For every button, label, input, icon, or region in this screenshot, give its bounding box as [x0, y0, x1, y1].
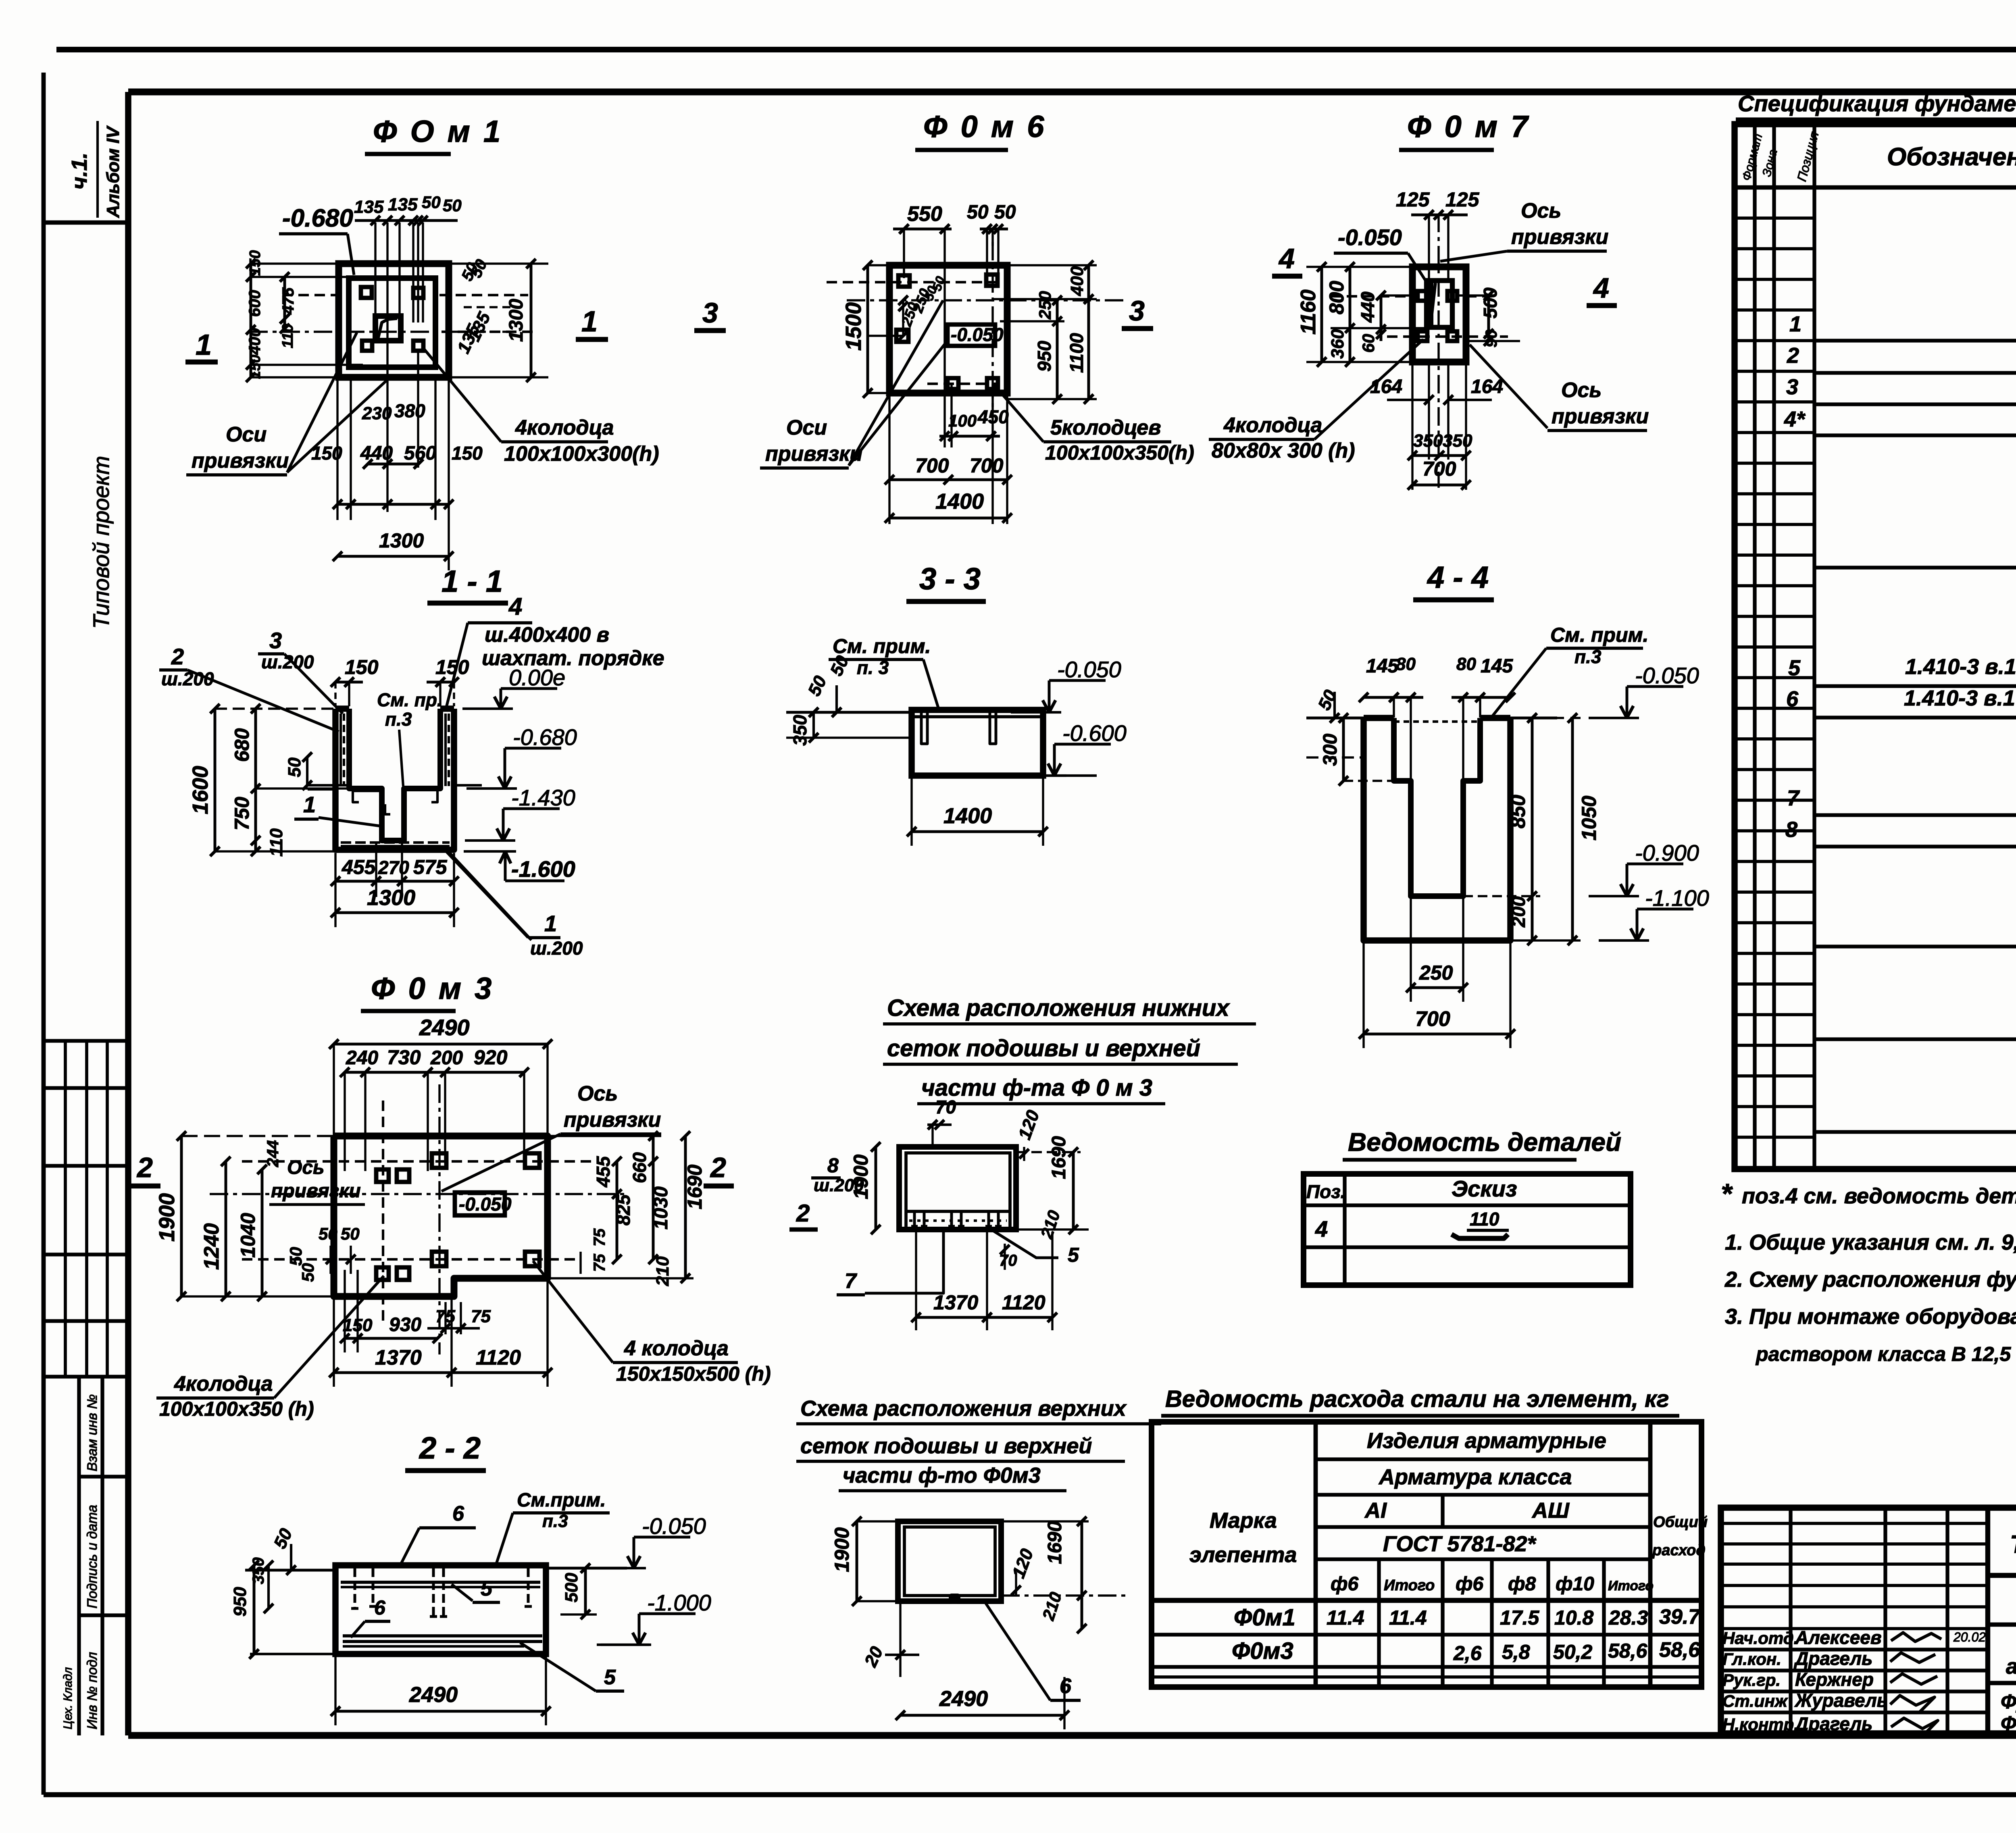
vedomost detaley title [1343, 1128, 1621, 1160]
svg-text:части ф-то Ф0м3: части ф-то Ф0м3 [843, 1463, 1041, 1488]
section 2-2 label sm prim p3 [495, 1490, 610, 1567]
svg-text:Взам инв №: Взам инв № [85, 1394, 100, 1471]
title block signature rows [1722, 1627, 1888, 1734]
sidebar stamp grid [44, 1041, 128, 1377]
section 1-1 elevation 0.000 [462, 707, 513, 710]
svg-text:1400: 1400 [935, 489, 984, 514]
plan FOm1 leader 4 wells [422, 347, 659, 466]
svg-text:110: 110 [267, 828, 286, 857]
svg-text:1690: 1690 [1044, 1521, 1066, 1564]
schema lower mesh hooks [909, 1213, 1007, 1226]
svg-text:700: 700 [1422, 458, 1456, 480]
svg-text:Эскиз: Эскиз [1452, 1176, 1517, 1201]
svg-text:элепента: элепента [1189, 1543, 1297, 1567]
plan FOm3 title [361, 972, 494, 1011]
section 2-2 right dim 500 [560, 1563, 597, 1619]
svg-text:3: 3 [1786, 375, 1798, 399]
svg-text:50: 50 [422, 193, 441, 212]
svg-text:50: 50 [994, 202, 1016, 223]
svg-text:1300: 1300 [367, 886, 415, 910]
section 1-1 title [427, 564, 508, 603]
sidebar box podpis i data [79, 1505, 128, 1615]
svg-text:сеток подошвы и верхней: сеток подошвы и верхней [800, 1434, 1092, 1458]
svg-text:См. пр.: См. пр. [377, 689, 442, 710]
svg-text:1120: 1120 [1002, 1291, 1045, 1314]
svg-text:150: 150 [452, 443, 483, 464]
svg-text:Ф 0 м 3: Ф 0 м 3 [371, 972, 494, 1006]
section 1-1 elevation -1.600 [464, 851, 575, 882]
section 1-1 label 1 sh200 bottom [442, 847, 583, 959]
svg-text:10.8: 10.8 [1554, 1606, 1594, 1629]
svg-text:Обозначение: Обозначение [1887, 143, 2016, 171]
svg-text:ф10: ф10 [1556, 1573, 1594, 1595]
svg-text:145: 145 [1366, 655, 1399, 677]
svg-text:Ф 0 м 6: Ф 0 м 6 [923, 110, 1046, 144]
plan FOm6 left dim 1500 [841, 260, 889, 398]
svg-text:-1.600: -1.600 [511, 856, 575, 882]
sidebar box inv no podl [61, 1652, 100, 1729]
svg-text:Общий: Общий [1653, 1514, 1708, 1531]
section 1-1 label 4 mesh note [446, 593, 664, 710]
plan FOm1 leader osi privyazki [186, 333, 388, 475]
plan FOm1 section mark 1 right [576, 306, 608, 339]
plan FOm1 axes [249, 295, 536, 332]
section 4-4 title [1413, 560, 1494, 600]
plan FOm3 outline with notch [334, 1136, 548, 1296]
section 4-4 label sm prim p3 [1492, 624, 1648, 717]
schema upper mesh drawing [898, 1521, 1001, 1601]
svg-text:270: 270 [378, 857, 409, 878]
svg-text:АI: АI [1364, 1498, 1387, 1523]
svg-text:Ф О м 1: Ф О м 1 [373, 114, 503, 149]
plan FOm1 top dims 135 135 50 50 [354, 193, 462, 225]
plan FOm3 right small dims 75 75 [581, 1228, 608, 1274]
section 1-1 left dims 680 750 110 [231, 704, 349, 857]
svg-text:1400: 1400 [943, 804, 992, 828]
svg-text:Схема расположения верхних: Схема расположения верхних [800, 1396, 1127, 1421]
svg-text:Поз.: Поз. [1306, 1181, 1345, 1202]
svg-text:7: 7 [1787, 786, 1800, 810]
section 4-4 elevation -1.100 [1599, 939, 1649, 942]
specification rows 1-4 [1784, 310, 2016, 431]
plan FOm7 left dims 1160 800 360 [1297, 262, 1427, 367]
svg-text:440: 440 [1357, 291, 1378, 323]
plan FOm1 right slanted small dims [454, 257, 517, 356]
svg-text:75: 75 [591, 1228, 608, 1246]
svg-text:50: 50 [298, 1263, 317, 1282]
svg-text:привязки: привязки [271, 1180, 361, 1202]
section 3-3 ground line left [786, 712, 912, 738]
svg-text:60: 60 [1359, 334, 1378, 353]
schema lower mesh left dims [811, 1142, 881, 1234]
svg-text:4: 4 [1315, 1216, 1328, 1242]
plan FOm7 top dims 125 125 [1396, 188, 1480, 220]
section 3-3 elevation -0.050 [1011, 711, 1061, 714]
title block signature squiggles [1890, 1630, 1986, 1735]
svg-text:привязки: привязки [564, 1108, 661, 1132]
title block stadia list columns [1988, 1625, 2016, 1683]
plan FOm3 section mark 2 left [130, 1152, 160, 1186]
svg-text:200: 200 [1508, 896, 1529, 928]
plan FOm6 section mark 3 left [694, 297, 726, 331]
svg-text:Ст.инж: Ст.инж [1722, 1691, 1788, 1710]
svg-text:39.7: 39.7 [1659, 1605, 1701, 1629]
plan FOm7 leader os privyazki top [1440, 199, 1608, 261]
svg-text:250: 250 [1419, 961, 1453, 984]
section 1-1 bottom dim 1300 [331, 853, 459, 927]
svg-text:0.00е: 0.00е [509, 665, 565, 690]
svg-text:Арматура класса: Арматура класса [1378, 1465, 1572, 1489]
plan FOm7 mark -0.050 leader [1334, 225, 1428, 285]
schema lower mesh bottom dims 1370 1120 [911, 1232, 1057, 1330]
svg-text:1240: 1240 [200, 1223, 223, 1270]
section 3-3 outline [912, 710, 1043, 776]
plan FOm1 top dim extension lines [375, 223, 423, 512]
title block frame [1721, 1508, 2016, 1733]
svg-text:4 - 4: 4 - 4 [1427, 560, 1489, 595]
svg-text:1370: 1370 [933, 1291, 978, 1314]
specification row ladder narrow columns [1735, 218, 1814, 1168]
svg-text:Кержнер: Кержнер [1795, 1669, 1874, 1690]
section 4-4 bottom dim 700 [1359, 942, 1515, 1048]
svg-text:-0.680: -0.680 [282, 204, 353, 232]
svg-text:1: 1 [581, 306, 598, 338]
specification table frame [1735, 124, 2016, 1169]
plan FOm6 bottom dims 700 700 [885, 395, 1012, 524]
svg-text:250: 250 [1035, 291, 1054, 320]
svg-text:Нач.отд.: Нач.отд. [1722, 1629, 1798, 1648]
plan FOm1 left dim chain 150 600 400 150 [246, 250, 363, 382]
svg-text:Н.контр.: Н.контр. [1722, 1715, 1799, 1734]
svg-text:5колодцев: 5колодцев [1050, 416, 1161, 439]
svg-text:1500: 1500 [841, 302, 866, 351]
plan FOm6 bottom dim 1400 [885, 489, 1012, 523]
svg-text:800: 800 [1325, 281, 1348, 314]
plan FOm6 right dims 250 950 [1000, 291, 1064, 404]
sidebar box vzam inv no [79, 1377, 128, 1735]
svg-text:28.3: 28.3 [1608, 1606, 1648, 1629]
svg-text:Ф0м3: Ф0м3 [1232, 1638, 1293, 1664]
section 3-3 left dims 50 350 [789, 653, 853, 746]
svg-text:1690: 1690 [683, 1165, 706, 1209]
section 4-4 ground lines [1306, 718, 1557, 757]
svg-text:*: * [1721, 1178, 1733, 1209]
section 1-1 wall rebar [341, 714, 449, 814]
svg-text:Ось: Ось [1521, 199, 1561, 223]
svg-text:привязки: привязки [765, 442, 862, 466]
svg-text:-0.680: -0.680 [513, 724, 577, 750]
svg-text:Ось: Ось [1561, 379, 1602, 402]
svg-text:автомобильных шин.: автомобильных шин. [2006, 1654, 2016, 1679]
svg-text:Цех. Кладл: Цех. Кладл [61, 1667, 75, 1729]
svg-text:1690: 1690 [1048, 1136, 1070, 1179]
svg-text:Ось: Ось [287, 1157, 325, 1178]
title block sheet name [1988, 1683, 2016, 1735]
vedomost rashoda title [1161, 1386, 1679, 1416]
svg-text:230: 230 [362, 404, 392, 423]
svg-text:Фундаменты Ф0м1, Ф0м3,: Фундаменты Ф0м1, Ф0м3, [2001, 1690, 2016, 1713]
svg-text:50,2: 50,2 [1553, 1641, 1593, 1663]
plan FOm1 bottom dims 230 380 [362, 400, 425, 469]
title block object name [2006, 1630, 2016, 1679]
svg-text:ф6: ф6 [1456, 1573, 1483, 1595]
svg-text:400: 400 [246, 328, 264, 355]
sidebar top box album [44, 121, 128, 223]
plan FOm3 label os privyazki left [269, 1157, 365, 1205]
svg-text:сеток подошвы и верхней: сеток подошвы и верхней [887, 1035, 1200, 1061]
svg-text:680: 680 [231, 728, 253, 762]
plan FOm1 center pocket [375, 316, 401, 341]
svg-text:-0.600: -0.600 [1062, 720, 1127, 746]
plan FOm3 section mark 2 right [704, 1152, 734, 1186]
plan FOm3 left dims 1900 1240 1040 [155, 1131, 334, 1301]
plan FOm7 wells [1418, 291, 1457, 341]
svg-text:2: 2 [136, 1152, 153, 1183]
plan FOm3 right dims 455 660 [548, 1131, 661, 1264]
svg-text:Оси: Оси [226, 423, 267, 446]
section 2-2 label 5 bottom [520, 1643, 624, 1691]
svg-text:1 - 1: 1 - 1 [442, 564, 503, 599]
svg-text:ч.1.: ч.1. [67, 152, 92, 189]
svg-text:Ведомость деталей: Ведомость деталей [1348, 1128, 1621, 1157]
svg-text:3: 3 [1129, 295, 1145, 327]
svg-text:700: 700 [915, 454, 949, 477]
vedomost rashoda header rows [1152, 1459, 1702, 1687]
svg-text:500: 500 [562, 1573, 581, 1602]
svg-text:-0.900: -0.900 [1635, 840, 1699, 865]
svg-text:Альбом IV: Альбом IV [103, 125, 123, 218]
svg-text:Ведомость расхода стали на эле: Ведомость расхода стали на элемент, кг [1165, 1386, 1669, 1412]
section 1-1 small dim 50 [285, 752, 312, 790]
section 4-4 right dims 850 1050 [1480, 713, 1600, 945]
section 2-2 bottom dim 2490 [331, 1657, 551, 1725]
svg-text:125: 125 [1396, 188, 1430, 211]
svg-text:Итого: Итого [1384, 1577, 1435, 1594]
plan FOm7 left dims 440 60 [1357, 291, 1419, 353]
svg-text:Схема расположения нижних: Схема расположения нижних [887, 995, 1230, 1021]
plan FOm6 leader osi privyazki [760, 300, 946, 468]
svg-text:4 колодца: 4 колодца [624, 1337, 729, 1360]
plan FOm7 leader 4 wells [1209, 339, 1423, 462]
plan FOm6 wells [896, 275, 998, 389]
svg-text:80: 80 [1456, 654, 1476, 674]
svg-text:150: 150 [247, 250, 264, 276]
svg-text:6: 6 [452, 1502, 464, 1525]
svg-text:1160: 1160 [1297, 289, 1320, 335]
svg-text:1030: 1030 [650, 1186, 672, 1230]
svg-text:2: 2 [1787, 343, 1799, 368]
plan FOm1 section mark 1 left [185, 329, 218, 362]
svg-text:-1.430: -1.430 [511, 785, 575, 810]
svg-text:5: 5 [1788, 656, 1801, 680]
svg-text:См. прим.: См. прим. [833, 635, 931, 657]
svg-text:-0.050: -0.050 [951, 324, 1004, 345]
schema upper mesh title [796, 1396, 1161, 1491]
plan FOm3 top dim 2490 [329, 1015, 552, 1136]
svg-text:1050: 1050 [1578, 796, 1600, 841]
plan FOm7 right dims 500 90 [1457, 287, 1520, 347]
svg-text:поз.4 см. ведомость деталей: поз.4 см. ведомость деталей на данном ли… [1742, 1184, 2016, 1208]
svg-text:210: 210 [653, 1256, 673, 1286]
svg-text:1: 1 [544, 911, 557, 936]
svg-text:2490: 2490 [419, 1015, 470, 1040]
plan FOm7 bottom dims 350 350 [1408, 365, 1472, 490]
plan FOm3 bottom dims 150 930 [340, 1270, 442, 1352]
plan FOm1 right dim 1300 [449, 259, 548, 382]
section 2-2 title [405, 1431, 486, 1471]
svg-text:150: 150 [247, 355, 263, 379]
section 2-2 label 6 bottom [351, 1596, 390, 1637]
svg-text:-0.050: -0.050 [1635, 663, 1699, 688]
svg-text:150: 150 [435, 656, 469, 678]
section 2-2 top hooks [351, 1568, 532, 1617]
svg-text:Марка: Марка [1210, 1508, 1277, 1533]
svg-text:4колодца: 4колодца [174, 1372, 273, 1396]
svg-text:1120: 1120 [476, 1346, 521, 1369]
plan FOm6 outline [889, 265, 1007, 393]
svg-text:Алексеев: Алексеев [1795, 1627, 1882, 1648]
schema lower mesh title [883, 995, 1256, 1104]
section 4-4 right dim 200 [1463, 896, 1581, 945]
svg-text:Драгель: Драгель [1793, 1648, 1872, 1669]
svg-text:110: 110 [279, 324, 296, 348]
svg-text:Типовой проект: Типовой проект [88, 456, 114, 629]
svg-text:455: 455 [342, 856, 376, 878]
svg-text:Итого: Итого [1608, 1578, 1654, 1594]
svg-text:6: 6 [374, 1596, 386, 1619]
svg-text:164: 164 [1471, 376, 1503, 397]
section 2-2 label 6 top [399, 1502, 476, 1567]
svg-text:8: 8 [827, 1154, 839, 1177]
svg-text:привязки: привязки [192, 449, 289, 472]
svg-text:400: 400 [1067, 266, 1087, 296]
title block TP number [1988, 1530, 2016, 1575]
plan FOm7 title [1399, 110, 1530, 150]
schema section mark 2 small [789, 1200, 818, 1230]
section 4-4 left dims 50 300 [1314, 687, 1411, 786]
section 3-3 title [906, 562, 986, 601]
svg-text:50: 50 [319, 1224, 337, 1243]
svg-text:50: 50 [967, 202, 989, 223]
svg-text:240: 240 [346, 1047, 378, 1069]
svg-text:4: 4 [1278, 243, 1295, 274]
svg-text:930: 930 [389, 1314, 421, 1336]
section 2-2 label 5 [452, 1577, 500, 1602]
svg-text:Гл.кон.: Гл.кон. [1722, 1650, 1781, 1669]
svg-text:Т.П. 405 - 7 - 4.86: Т.П. 405 - 7 - 4.86 [2010, 1531, 2016, 1558]
plan FOm6 left small dims 250 250 50 50 [867, 274, 948, 340]
svg-text:привязки: привязки [1552, 405, 1649, 428]
svg-text:расход: расход [1652, 1542, 1706, 1559]
plan FOm6 boxed mark -0.050 [948, 324, 1004, 346]
title block left grid [1721, 1508, 1988, 1733]
svg-text:145: 145 [1481, 655, 1513, 677]
svg-text:125: 125 [1445, 188, 1480, 211]
svg-text:17.5: 17.5 [1500, 1606, 1540, 1629]
svg-text:70: 70 [935, 1096, 956, 1117]
svg-text:ГОСТ 5781-82*: ГОСТ 5781-82* [1383, 1532, 1537, 1556]
svg-text:825: 825 [613, 1194, 634, 1225]
svg-text:1: 1 [303, 792, 316, 817]
svg-text:4колодца: 4колодца [1223, 414, 1322, 437]
svg-text:575: 575 [413, 856, 448, 878]
svg-text:Рук.гр.: Рук.гр. [1722, 1671, 1781, 1689]
svg-text:-0.050: -0.050 [1057, 657, 1121, 682]
plan FOm7 center hole [1427, 281, 1452, 327]
svg-text:6: 6 [1060, 1675, 1072, 1698]
svg-text:58,6: 58,6 [1608, 1639, 1648, 1662]
svg-text:950: 950 [230, 1587, 250, 1617]
svg-text:1.410-3 в.1: 1.410-3 в.1 [1904, 686, 2015, 710]
section 1-1 elevation -0.680 [467, 787, 517, 790]
svg-text:300: 300 [1320, 734, 1341, 766]
section 2-2 ground lines [245, 1568, 627, 1654]
svg-text:3 - 3: 3 - 3 [919, 562, 981, 596]
svg-text:ш.200: ш.200 [530, 938, 583, 959]
plan FOm1 left dim chain 110 475 [279, 272, 297, 348]
svg-text:75: 75 [591, 1254, 608, 1272]
plan FOm1 mark -0.680 leader [279, 204, 354, 275]
svg-text:560: 560 [404, 443, 436, 464]
section 3-3 bottom dim 1400 [907, 778, 1048, 846]
svg-text:См.прим.: См.прим. [517, 1490, 606, 1511]
svg-text:850: 850 [1507, 795, 1529, 828]
plan FOm6 right dims 400 1100 [993, 260, 1097, 404]
svg-text:2: 2 [171, 644, 184, 669]
svg-text:привязки: привязки [1511, 225, 1608, 249]
schema upper mesh dim 20 [860, 1604, 919, 1677]
svg-text:п.3: п.3 [385, 709, 412, 730]
section 1-1 bottom dims 455 270 575 [331, 843, 459, 897]
svg-text:1900: 1900 [831, 1527, 853, 1572]
svg-text:920: 920 [474, 1046, 508, 1069]
svg-text:110: 110 [1470, 1209, 1500, 1230]
svg-text:350: 350 [1413, 431, 1443, 451]
svg-text:-0.050: -0.050 [1338, 225, 1402, 250]
svg-text:ш.400х400 в: ш.400х400 в [485, 623, 609, 647]
specification heading [1736, 91, 2016, 119]
vedomost rashoda table frame [1152, 1422, 1702, 1687]
plan FOm1 outline [339, 264, 449, 377]
svg-text:1: 1 [1789, 312, 1801, 336]
schema lower mesh right dims [990, 1107, 1089, 1270]
section 1-1 label 3 sh200 [258, 628, 343, 714]
schema upper mesh right dims [1008, 1517, 1087, 1633]
svg-text:11.4: 11.4 [1327, 1606, 1364, 1629]
svg-text:1600: 1600 [188, 766, 212, 814]
section 1-1 mesh ledge lines [308, 785, 482, 791]
svg-text:4: 4 [1593, 272, 1609, 304]
svg-text:3. При монтаже оборудования: 3. При монтаже оборудования выполнить по… [1725, 1304, 2016, 1329]
svg-text:5: 5 [604, 1666, 616, 1689]
svg-text:500: 500 [1480, 287, 1501, 318]
plan FOm7 section mark 4 left [1272, 243, 1302, 276]
section 4-4 outline [1364, 718, 1510, 940]
svg-text:11.4: 11.4 [1389, 1606, 1427, 1629]
plan FOm3 top dims 240 730 200 920 [340, 1046, 529, 1171]
section 2-2 left dims 50 350 950 [230, 1525, 296, 1659]
section 2-2 outline [335, 1565, 546, 1654]
svg-text:450: 450 [977, 406, 1009, 427]
svg-text:100: 100 [948, 411, 977, 430]
svg-text:1.410-3 в.1: 1.410-3 в.1 [1905, 655, 2016, 679]
svg-text:2490: 2490 [939, 1687, 988, 1711]
svg-text:ф6: ф6 [1331, 1573, 1358, 1595]
specification content lines [1814, 341, 2016, 1132]
svg-text:7: 7 [845, 1269, 857, 1293]
svg-text:2490: 2490 [409, 1683, 458, 1707]
plan FOm7 leader os privyazki bottom [1470, 345, 1649, 431]
